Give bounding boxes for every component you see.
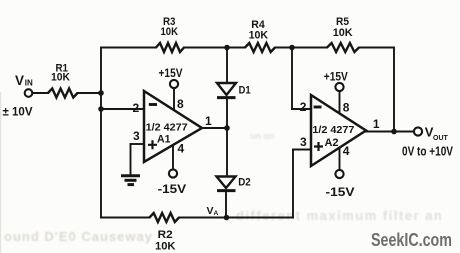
svg-text:-15V: -15V [158, 184, 187, 196]
diode D2 [217, 177, 236, 191]
node A1 -15V terminal [169, 169, 177, 177]
wire bottom rail segment 2 [179, 217, 293, 219]
wire D column between node and D2 [226, 128, 228, 176]
wire A2 pin3 [293, 149, 311, 151]
diode D1 [217, 83, 236, 98]
svg-text:A1: A1 [157, 134, 171, 146]
wire A1 pin3 [131, 143, 145, 145]
wire top rail segment 1 [101, 47, 156, 49]
svg-text:10K: 10K [51, 72, 70, 84]
svg-text:A2: A2 [325, 137, 339, 149]
svg-text:D2: D2 [238, 176, 251, 188]
wire A2 output [366, 131, 414, 133]
wire input to R1 [33, 92, 49, 94]
wire A1 pin4 [172, 145, 174, 170]
wire top rail segment 3 [275, 47, 327, 49]
svg-text:1: 1 [373, 117, 380, 131]
junction dot output [391, 129, 397, 135]
svg-text:different maximum filter an: different maximum filter an [236, 208, 443, 223]
junction dot top rail / A2 pin2 [289, 45, 295, 51]
svg-text:A: A [214, 210, 219, 217]
node input terminal [25, 89, 33, 97]
svg-text:IN: IN [25, 79, 33, 88]
wire A2 pin3 riser [292, 150, 294, 218]
op-amp U1 A1 triangle [144, 91, 202, 162]
wire top rail segment 2 [184, 47, 245, 49]
svg-text:+15V: +15V [324, 72, 348, 84]
svg-text:1/2 4277: 1/2 4277 [146, 123, 188, 134]
wire A2 pin2 [292, 108, 311, 110]
svg-text:V: V [207, 205, 214, 217]
svg-text:ound D'E0 Causeway: ound D'E0 Causeway [4, 229, 153, 244]
junction dot top rail / D column [224, 45, 230, 51]
svg-text:10K: 10K [333, 27, 353, 39]
svg-text:3: 3 [133, 129, 140, 143]
junction dot input/left rail [98, 90, 104, 96]
svg-text:R2: R2 [158, 229, 173, 241]
node Vout terminal [414, 127, 422, 135]
svg-text:4: 4 [343, 144, 350, 158]
resistor R5 [327, 43, 359, 52]
svg-text:4: 4 [178, 142, 185, 156]
wire bottom rail segment 1 [101, 217, 150, 219]
svg-text:10K: 10K [155, 241, 176, 253]
op-amp A2 plus sign [314, 142, 323, 151]
scan left edge [0, 92, 1, 253]
svg-text:D1: D1 [239, 85, 251, 97]
wire A1 pin2 [101, 108, 144, 110]
wire A2 pin2 drop [291, 48, 293, 110]
svg-text:3: 3 [300, 135, 307, 149]
wire right rail down to output [393, 48, 395, 132]
junction node VA [224, 215, 230, 221]
ground [121, 176, 140, 185]
op-amp U2 A2 triangle [311, 95, 366, 166]
svg-text:2: 2 [133, 101, 140, 115]
svg-text:8: 8 [177, 97, 184, 111]
svg-text:-15V: -15V [326, 187, 355, 199]
node A2 +15V terminal [335, 83, 343, 91]
wire A1 pin3 to ground [130, 144, 132, 175]
svg-text:0V to +10V: 0V to +10V [402, 145, 454, 159]
svg-text:10K: 10K [161, 26, 179, 38]
op-amp A1 minus sign [149, 103, 157, 106]
op-amp A2 minus sign [314, 106, 322, 109]
node A1 +15V terminal [170, 80, 178, 88]
wire R1 to left rail [78, 92, 102, 94]
node A2 -15V terminal [335, 170, 343, 178]
wire A2 pin4 [339, 148, 341, 170]
svg-text:OUT: OUT [433, 135, 449, 142]
svg-text:1/2 4277: 1/2 4277 [312, 125, 354, 136]
wire top rail segment 4 [359, 47, 394, 49]
resistor R4 [245, 43, 275, 52]
svg-text:2: 2 [300, 100, 307, 114]
wire left rail vertical [100, 48, 102, 218]
svg-text:V: V [15, 73, 24, 88]
wire D column between D1 and node [226, 99, 228, 129]
wire A1 output to D column [202, 127, 227, 129]
wire D column upper [226, 48, 228, 83]
wire A2 pin8 [339, 91, 341, 113]
svg-text:± 10V: ± 10V [3, 105, 33, 119]
op-amp A1 plus sign [148, 140, 157, 149]
junction dot pin2 branch [98, 106, 104, 112]
svg-text:un on: un on [250, 131, 275, 141]
svg-text:+15V: +15V [159, 68, 183, 80]
svg-text:1: 1 [205, 114, 212, 128]
svg-text:SeekIC.com: SeekIC.com [371, 230, 452, 250]
svg-text:8: 8 [343, 101, 350, 115]
junction dot A1 out / D column [224, 125, 230, 131]
resistor R1 [48, 89, 78, 98]
wire A1 pin8 [173, 89, 175, 111]
wire D column below D2 [225, 192, 227, 218]
svg-text:10K: 10K [249, 29, 269, 41]
resistor R3 [156, 43, 184, 52]
resistor R2 [150, 213, 180, 222]
